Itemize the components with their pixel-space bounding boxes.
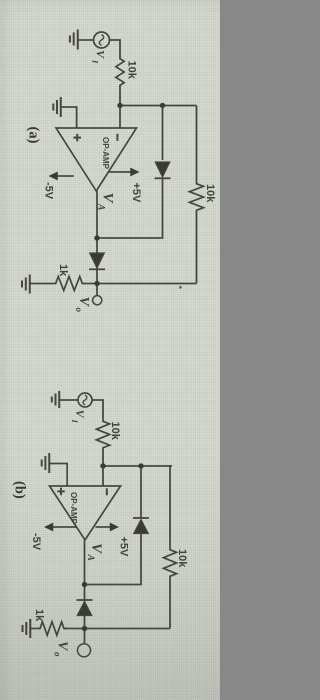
- Vo rail junction dot (b): [82, 626, 87, 631]
- feedback resistor 10k top (b): [164, 466, 177, 629]
- diode D2 (a): [89, 253, 105, 269]
- -5V supply arrow (b): [44, 523, 77, 532]
- ground at source (a): [70, 30, 78, 50]
- node X rail (a): [120, 105, 197, 107]
- ground at + input (a): [53, 97, 61, 117]
- label VA (b): [85, 543, 104, 561]
- wire inverting input (a): [119, 106, 121, 129]
- node X rail (b): [103, 465, 172, 467]
- AC source VI (a): [94, 32, 110, 48]
- label 10k feedback (b): [176, 549, 188, 568]
- wire 1k to ground (b): [30, 628, 37, 630]
- stray ink speck (a): [179, 286, 182, 289]
- minus sign (b): [106, 488, 108, 495]
- op-amp U2 (b): [50, 486, 121, 540]
- label +5V (b): [118, 537, 130, 558]
- node X junction dot (b): [100, 463, 105, 468]
- wire + input to ground (b): [49, 464, 67, 487]
- label 10k input (b): [109, 422, 121, 441]
- ground at + input (b): [42, 453, 50, 473]
- feedback diode branch wire (a): [97, 106, 163, 239]
- +5V supply arrow (a): [109, 168, 139, 177]
- wire 1k to ground (a): [30, 283, 48, 285]
- plus sign (b): [57, 488, 65, 496]
- label 10k feedback (a): [204, 184, 216, 203]
- label VA (a): [96, 193, 116, 211]
- wire source to resistor 10k (b): [92, 400, 103, 419]
- output wire VA (a): [96, 191, 98, 296]
- Vo rail vertical (a): [85, 283, 197, 285]
- +5V supply arrow (b): [96, 523, 120, 532]
- minus sign (a): [116, 134, 118, 141]
- label Vo (a): [74, 297, 91, 313]
- output wire VA (b): [84, 540, 86, 644]
- wire source to ground (b): [59, 399, 78, 401]
- ground at 1k (b): [23, 619, 31, 638]
- label (b): [12, 481, 28, 499]
- label VI (a): [91, 50, 108, 64]
- diode D2 (b): [77, 600, 93, 616]
- resistor 10k input (b): [96, 419, 109, 466]
- -5V supply arrow (a): [49, 172, 74, 181]
- label 1k (a): [57, 264, 69, 277]
- Vo terminal circle (b): [78, 644, 91, 657]
- output junction dot (b): [82, 582, 87, 587]
- label +5V (a): [130, 183, 142, 204]
- label OP-AMP (b): [69, 492, 78, 525]
- output junction dot (a): [94, 235, 99, 240]
- AC source VI (b): [78, 393, 92, 407]
- wire inverting input (b): [102, 466, 104, 486]
- diode D1 (b): [133, 518, 149, 534]
- resistor 1k (b): [38, 622, 67, 635]
- label 10k input (a): [126, 61, 138, 80]
- label -5V (b): [30, 533, 42, 551]
- label 1k (b): [33, 609, 45, 622]
- junction dot diode tee (a): [160, 103, 165, 108]
- feedback diode branch wire (b): [85, 466, 142, 585]
- resistor 10k input (a): [116, 56, 124, 106]
- label Vo (b): [53, 641, 70, 657]
- junction dot diode tee (b): [138, 463, 143, 468]
- Vo rail vertical (b): [64, 628, 170, 630]
- wire source to ground (a): [78, 39, 94, 41]
- label -5V (a): [43, 182, 55, 200]
- label VI (b): [70, 410, 87, 424]
- feedback resistor 10k top (a): [190, 106, 204, 284]
- diode D1 (a): [155, 162, 171, 178]
- label (a): [26, 127, 42, 144]
- wire + input to ground (a): [61, 107, 77, 128]
- ground at 1k (a): [22, 275, 30, 294]
- ground at source (b): [52, 391, 59, 408]
- wire source to resistor 10k (a): [110, 40, 121, 56]
- label OP-AMP (a): [101, 137, 110, 170]
- plus sign (a): [73, 134, 81, 142]
- node X junction dot (a): [117, 103, 122, 108]
- op-amp U1 (a): [56, 128, 137, 191]
- Vo rail junction dot (a): [94, 281, 99, 286]
- Vo terminal circle (a): [93, 296, 102, 305]
- resistor 1k (a): [48, 277, 85, 291]
